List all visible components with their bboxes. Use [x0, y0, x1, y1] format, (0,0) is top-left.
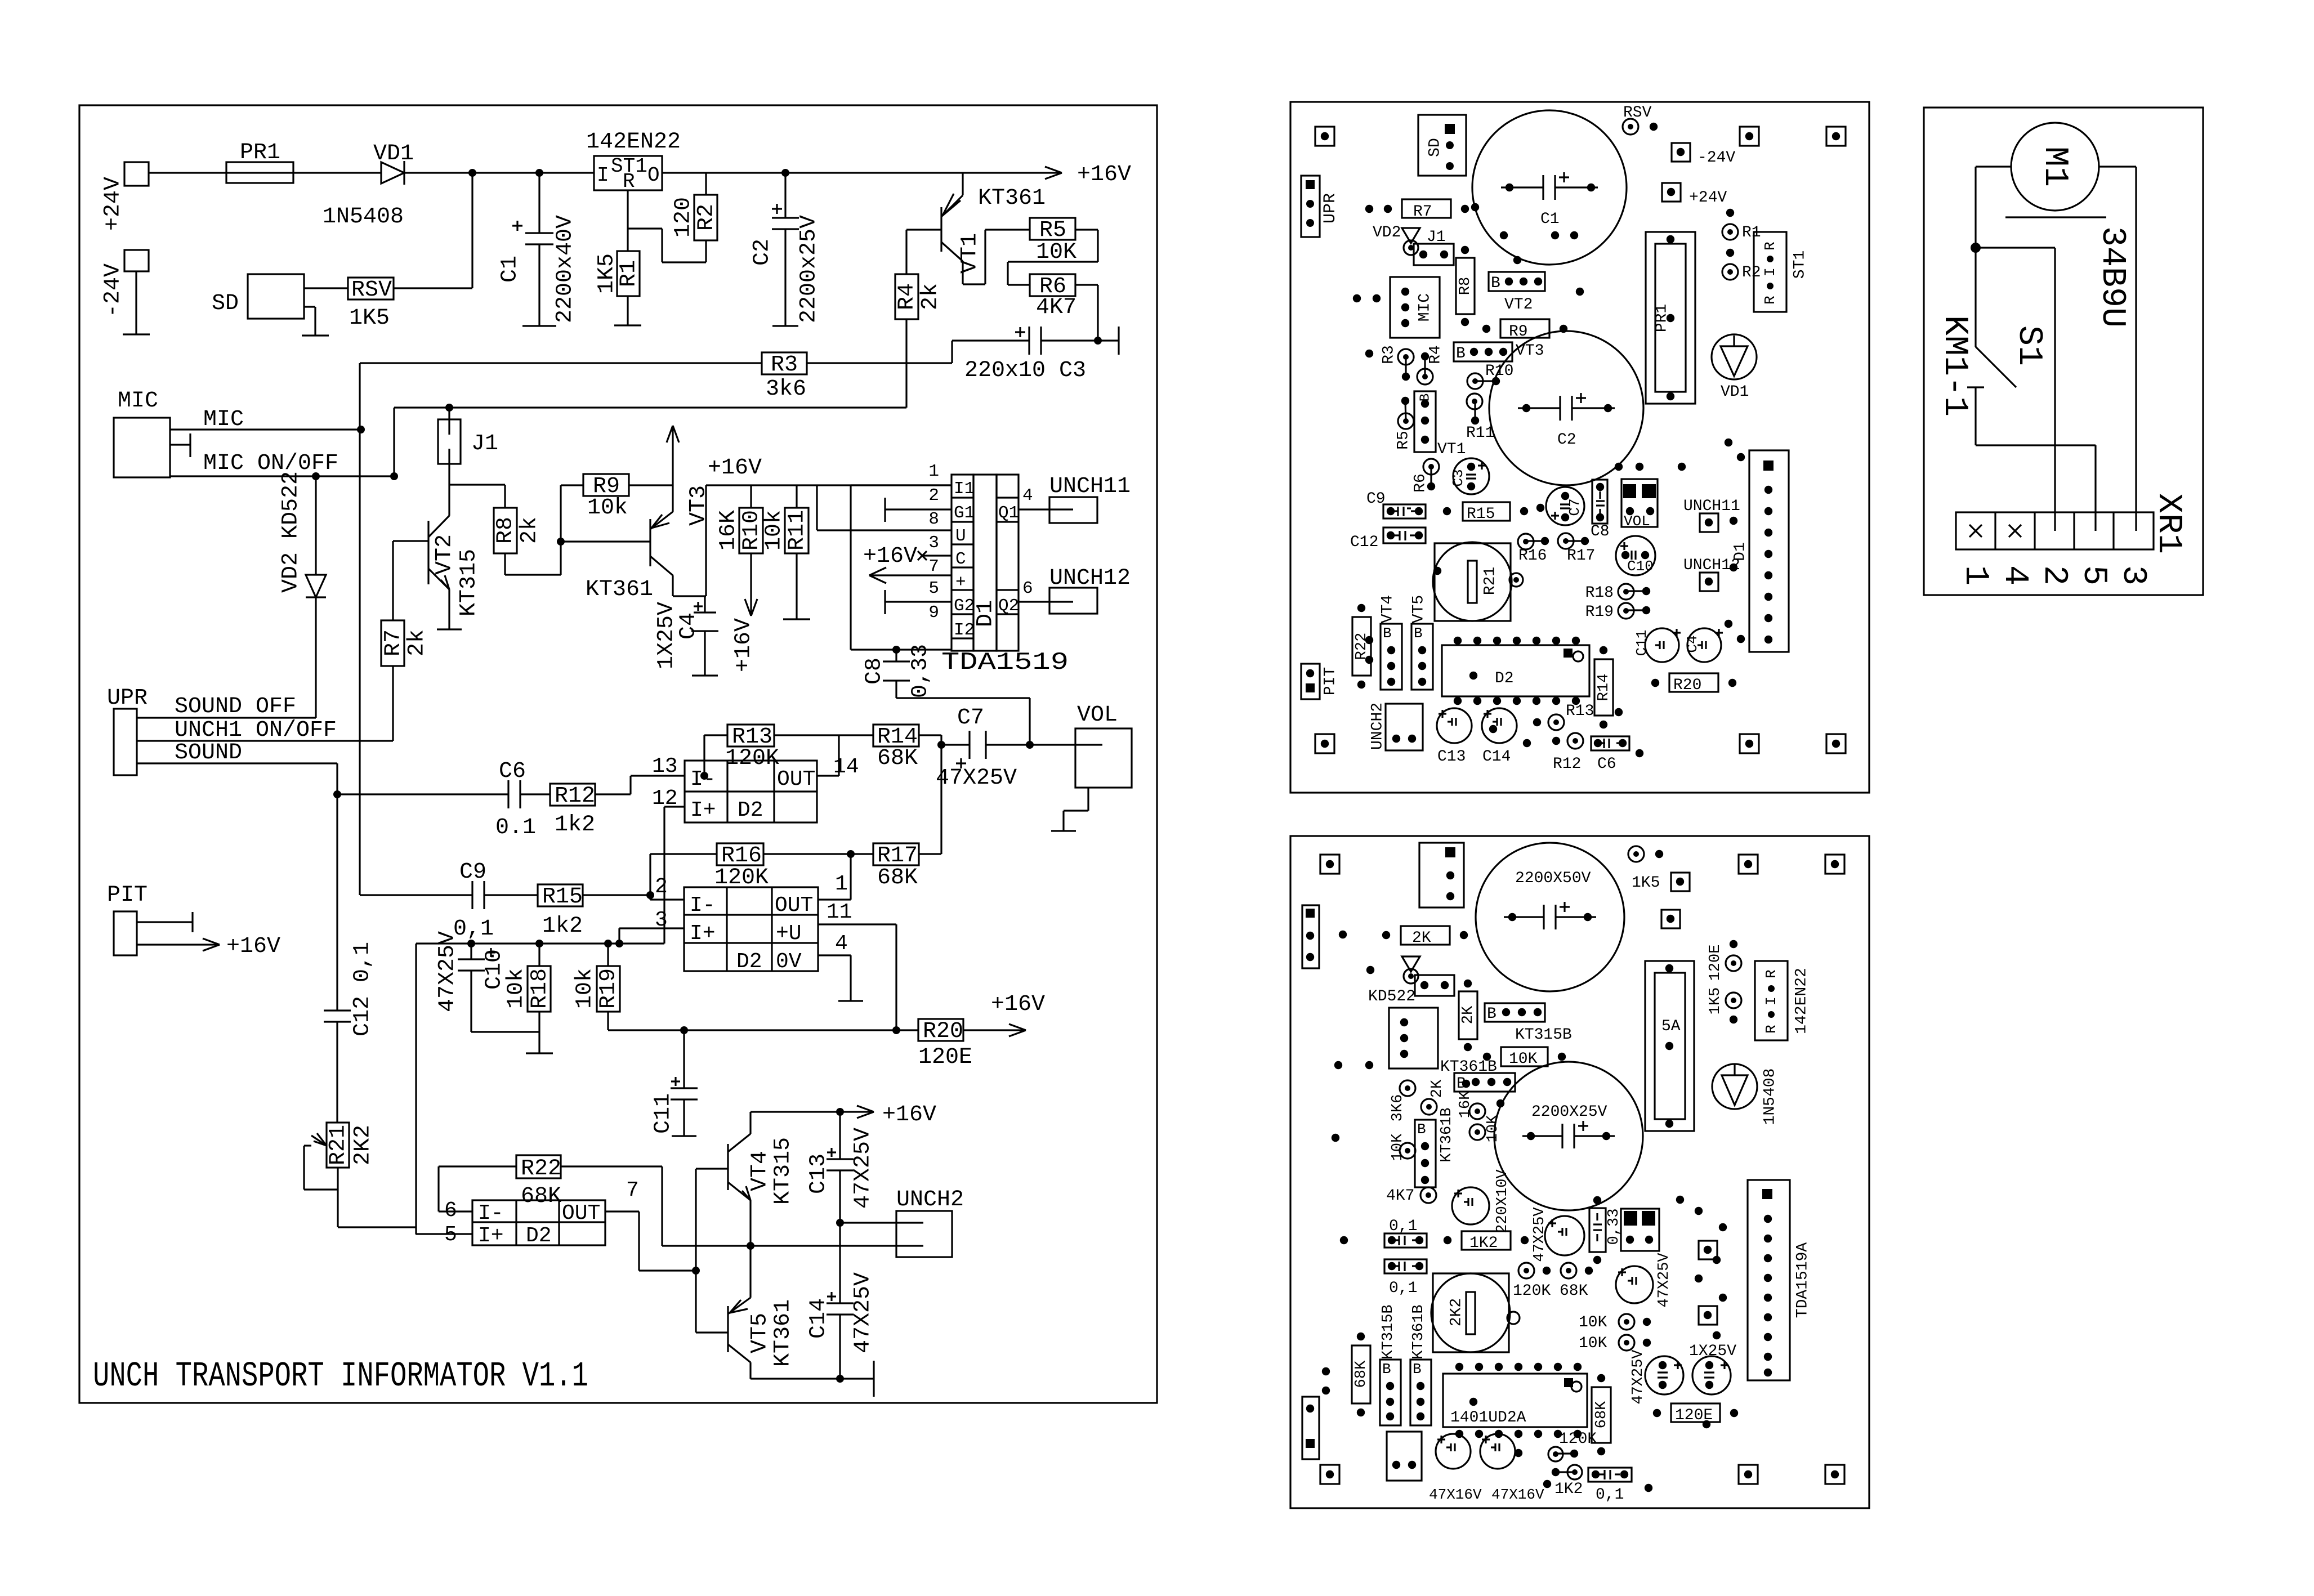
svg-text:R7: R7 [1413, 203, 1432, 221]
wire PIT pin2 +16V [137, 934, 280, 959]
svg-text:2K: 2K [1412, 929, 1431, 947]
resistor R10 16K [716, 485, 765, 553]
PCB1 resistor R13 [1533, 703, 1594, 730]
svg-text:R15: R15 [1467, 506, 1495, 523]
svg-text:UPR: UPR [107, 686, 148, 711]
pin3 C +16V [863, 544, 951, 569]
svg-text:KT315: KT315 [457, 549, 482, 616]
PCB1 capacitor C12 footprint [1350, 527, 1426, 551]
svg-text:3k6: 3k6 [766, 377, 806, 402]
wire RSV to node [394, 287, 472, 289]
PCB2 capacitor 0,1 bottom [1588, 1468, 1632, 1504]
svg-text:+16V: +16V [991, 992, 1045, 1017]
node RSV riser [468, 169, 476, 288]
jumper J1 [438, 408, 498, 516]
wire node to pin2 [1976, 248, 2055, 512]
svg-text:PR1: PR1 [240, 140, 280, 166]
svg-text:8: 8 [928, 509, 939, 529]
svg-text:10K: 10K [1509, 1050, 1538, 1068]
svg-text:SOUND OFF: SOUND OFF [175, 694, 296, 719]
resistor R16 120K [650, 843, 873, 891]
wire MIC ON/OFF [170, 451, 394, 480]
arrow +16V down from R10 [731, 553, 757, 672]
PCB1 fuse PR1 [1646, 232, 1695, 404]
wire MIC shield [170, 433, 190, 457]
svg-text:2K2: 2K2 [1448, 1298, 1465, 1326]
svg-text:120: 120 [671, 197, 696, 238]
svg-text:68K: 68K [877, 865, 918, 891]
svg-text:R: R [623, 170, 635, 193]
motor terminal line 34B9U [2005, 217, 2131, 328]
title text [93, 1356, 588, 1396]
svg-text:VT2: VT2 [432, 534, 458, 575]
svg-text:J1: J1 [1427, 229, 1446, 246]
PCB2 pads 1K5 120E [1707, 940, 1741, 1023]
PCB2 potentiometer 2K2 [1431, 1273, 1520, 1352]
svg-text:R3: R3 [1380, 345, 1397, 364]
svg-text:KT315B: KT315B [1380, 1304, 1397, 1359]
connector UNCH2 [896, 1187, 964, 1257]
svg-text:R8: R8 [1457, 277, 1474, 295]
wire pin2 [646, 854, 684, 900]
svg-text:0,1: 0,1 [1389, 1280, 1417, 1297]
svg-text:R9: R9 [1509, 323, 1528, 341]
svg-text:1K2: 1K2 [1469, 1235, 1498, 1252]
svg-text:1: 1 [928, 462, 939, 481]
wire VT3 collector to rail [705, 485, 706, 613]
svg-text:R7: R7 [381, 629, 406, 656]
svg-text:10K: 10K [1485, 1115, 1502, 1142]
svg-text:OUT: OUT [775, 893, 813, 918]
PCB1 transistor VT1 footprint [1414, 391, 1466, 458]
svg-text:C2: C2 [750, 239, 775, 266]
svg-text:J1: J1 [471, 431, 498, 457]
svg-text:120K: 120K [1513, 1282, 1551, 1300]
PCB2 transistor KT361B vertical second [1410, 1304, 1431, 1425]
svg-text:I+: I+ [478, 1224, 504, 1248]
PCB1 capacitor C1 [1472, 110, 1627, 265]
capacitor C6 0.1 [333, 759, 550, 841]
svg-text:4: 4 [835, 932, 848, 956]
svg-text:3: 3 [655, 908, 668, 932]
wire M1 right [2099, 167, 2136, 512]
schematic frame [79, 105, 1157, 1403]
IC D1 TDA1519 [928, 462, 1069, 677]
capacitor C11 47X25V [651, 1030, 698, 1136]
svg-text:I+: I+ [690, 798, 716, 822]
svg-text:R11: R11 [785, 510, 810, 551]
svg-text:I: I [1763, 996, 1780, 1005]
PCB1 resistor R5 [1395, 397, 1414, 450]
svg-text:O: O [647, 164, 660, 187]
PCB2 connector UPR [1302, 905, 1319, 968]
resistor R22 68K [439, 1155, 662, 1246]
connector UPR [107, 686, 148, 775]
svg-text:C11: C11 [651, 1093, 676, 1134]
wire fuse to VD1 [293, 172, 381, 173]
resistor R11 10k [762, 485, 810, 619]
svg-text:D1: D1 [1731, 542, 1749, 561]
svg-text:RSV: RSV [1623, 104, 1652, 122]
PCB1 capacitor C10 [1616, 536, 1655, 575]
svg-text:PIT: PIT [107, 883, 148, 908]
PCB1 potentiometer R21 [1433, 542, 1523, 621]
connector UNCH12 [1018, 566, 1131, 614]
svg-text:R21: R21 [1481, 567, 1499, 595]
PCB2 resistor 120E [1653, 1403, 1738, 1424]
svg-text:68K: 68K [877, 746, 918, 771]
svg-text:10K: 10K [1579, 1314, 1607, 1331]
PCB2 transistor KT361B vertical [1415, 1107, 1455, 1187]
svg-text:+16V: +16V [226, 934, 280, 959]
PCB2 capacitor 47X25V first [1531, 1207, 1584, 1262]
svg-text:C14: C14 [1482, 748, 1511, 766]
svg-text:120K: 120K [725, 746, 779, 771]
PCB2 trimmer VOL [1621, 1209, 1659, 1251]
svg-text:R: R [1762, 296, 1779, 305]
PCB2 transistor KT361B [1440, 1058, 1515, 1093]
svg-text:2K: 2K [1460, 1005, 1477, 1024]
svg-text:16K: 16K [716, 510, 741, 551]
PCB1 RSV pads [1623, 104, 1658, 135]
svg-text:142EN22: 142EN22 [586, 129, 681, 155]
PCB1 resistor R17 [1558, 533, 1595, 565]
svg-text:MIC: MIC [118, 388, 158, 414]
capacitor C13 47X25V [806, 1112, 876, 1223]
svg-text:D2: D2 [736, 950, 762, 974]
switch S1 KM1-1 [1935, 248, 2048, 445]
resistor R6 4K7 [1030, 274, 1076, 320]
PCB1 diode VD1 [1712, 334, 1757, 401]
svg-text:R: R [1762, 242, 1779, 251]
XR1 pin numbers [1956, 565, 2152, 585]
svg-text:R2: R2 [694, 204, 720, 231]
pin2 G1 stub [885, 498, 951, 522]
PCB2 mounting pads [1320, 855, 1844, 1484]
svg-text:I-: I- [690, 893, 716, 918]
svg-text:R6: R6 [1411, 473, 1429, 493]
svg-text:2200X25V: 2200X25V [1531, 1103, 1607, 1121]
connector SD [212, 274, 304, 319]
rail R10 R11 tops [706, 484, 951, 486]
PCB2 IC 1401UD2A [1443, 1363, 1587, 1438]
svg-text:S1: S1 [2009, 325, 2048, 366]
svg-text:VT3: VT3 [1516, 342, 1544, 360]
PCB1 resistor R4 [1417, 345, 1444, 385]
PCB2 connector UNCH2 [1387, 1432, 1422, 1481]
PCB1 resistor R1 [1722, 209, 1761, 242]
power arrow +16V VT3 [667, 426, 762, 512]
svg-text:+16V: +16V [882, 1102, 936, 1128]
svg-text:VD1: VD1 [1721, 383, 1749, 401]
wire SD to RSV [304, 287, 348, 289]
pin5 G2 stub [885, 590, 951, 614]
svg-text:MIC ON/0FF: MIC ON/0FF [203, 451, 338, 476]
svg-text:0,33: 0,33 [908, 644, 933, 698]
PCB2 stray pins [1322, 931, 1727, 1492]
svg-text:10K: 10K [1390, 1133, 1406, 1161]
PCB2 jumper [1415, 975, 1454, 996]
svg-text:XR1: XR1 [2149, 493, 2187, 554]
svg-text:C12 0,1: C12 0,1 [350, 942, 376, 1036]
PCB1 trimmer VOL [1621, 479, 1658, 530]
svg-text:UPR: UPR [1321, 193, 1340, 223]
regulator ST1 142EN22 [586, 129, 681, 193]
svg-text:C3: C3 [1450, 469, 1467, 486]
svg-text:B: B [1382, 1361, 1391, 1378]
svg-text:KT361B: KT361B [1410, 1304, 1427, 1359]
PCB1 resistor R2 [1722, 249, 1761, 281]
svg-text:C8: C8 [1591, 523, 1610, 540]
PCB2 capacitor 1X25V [1689, 1343, 1736, 1394]
transistor VT5 KT361 [728, 1246, 796, 1379]
PCB1 resistor R19 [1585, 603, 1651, 621]
svg-text:68K: 68K [1560, 1282, 1588, 1300]
svg-text:SOUND: SOUND [175, 740, 242, 766]
svg-text:120E: 120E [1707, 945, 1724, 981]
svg-text:VD2: VD2 [1373, 224, 1401, 242]
wire pin11 +U [818, 900, 896, 1030]
svg-text:UNCH2: UNCH2 [1369, 703, 1386, 750]
svg-text:C9: C9 [459, 860, 486, 885]
svg-text:0V: 0V [776, 950, 802, 974]
svg-text:120E: 120E [918, 1045, 972, 1070]
PCB1 capacitor C3 [1450, 458, 1489, 494]
svg-text:68K: 68K [1353, 1360, 1370, 1388]
svg-text:C1: C1 [498, 256, 523, 283]
svg-text:4: 4 [1022, 486, 1033, 506]
resistor R20 120E [918, 992, 1045, 1070]
PCB1 resistor R18 [1585, 584, 1651, 602]
PCB1 mounting pads [1315, 127, 1846, 753]
PCB1 jumper J1 [1414, 229, 1454, 265]
capacitor C14 47X25V [806, 1223, 876, 1383]
PCB2 connector SD [1419, 843, 1464, 907]
svg-text:R11: R11 [1466, 424, 1494, 442]
wire VD1 to ST1 [404, 172, 594, 173]
svg-text:UNCH11: UNCH11 [1049, 474, 1131, 499]
PCB1 regulator ST1 [1754, 232, 1808, 312]
wire base VT5 [696, 1331, 728, 1333]
resistor R8 2k [493, 485, 561, 575]
svg-text:VT5: VT5 [1410, 595, 1427, 623]
svg-text:C12: C12 [1350, 534, 1378, 551]
svg-text:UNCH TRANSPORT INFORMATOR V1.1: UNCH TRANSPORT INFORMATOR V1.1 [93, 1356, 588, 1396]
svg-text:TDA1519A: TDA1519A [1794, 1242, 1811, 1318]
svg-text:R22: R22 [521, 1156, 561, 1182]
wire UNCH1 ON/OFF [137, 718, 393, 743]
svg-text:R15: R15 [542, 884, 583, 910]
PCB2 capacitor 0,1 first [1384, 1218, 1427, 1248]
transistor VT2 KT315 [393, 516, 482, 629]
PCB2 square pads right [1661, 873, 1690, 928]
svg-text:7: 7 [928, 557, 939, 576]
svg-text:C8: C8 [862, 658, 887, 685]
PCB1 resistor R3 [1380, 345, 1414, 381]
PCB2 resistor 10K right second [1579, 1335, 1651, 1352]
svg-text:G2: G2 [954, 596, 975, 616]
capacitor C1 2200x40V [498, 215, 578, 326]
svg-text:B: B [1413, 1361, 1422, 1378]
svg-text:KT361B: KT361B [1439, 1107, 1455, 1162]
PCB2 resistor 68K vertical left [1352, 1333, 1370, 1416]
wire input bracket pins 1 9 [851, 485, 951, 654]
PCB2 transistor KT315B vertical [1380, 1304, 1401, 1425]
svg-text:220x10 C3: 220x10 C3 [964, 358, 1086, 383]
svg-text:2k: 2k [918, 283, 944, 310]
svg-text:VOL: VOL [1077, 703, 1118, 728]
svg-text:1N5408: 1N5408 [323, 204, 404, 230]
svg-text:C10: C10 [1627, 558, 1654, 575]
transistor VT4 KT315 [728, 1112, 796, 1246]
svg-text:2k: 2k [405, 629, 430, 656]
svg-text:R3: R3 [771, 352, 798, 378]
PCB1 capacitor C8 footprint [1591, 480, 1610, 540]
svg-text:R19: R19 [596, 968, 622, 1009]
PCB2 resistor 120K pad bottom [1548, 1430, 1597, 1461]
svg-text:1: 1 [1956, 565, 1994, 585]
capacitor C10 47X25V [435, 931, 539, 1032]
svg-text:0.1: 0.1 [495, 815, 536, 841]
svg-text:2200x25V: 2200x25V [797, 215, 822, 323]
PCB1 capacitor C9 footprint [1366, 490, 1426, 518]
resistor R19 10k [573, 944, 622, 1030]
connector VOL [1075, 703, 1132, 788]
wire SOUND OFF [137, 694, 316, 719]
svg-text:VT4: VT4 [1379, 595, 1396, 623]
resistor R2 120 [671, 173, 720, 240]
svg-text:UNCH11: UNCH11 [1683, 498, 1740, 515]
PCB1 resistor R7 [1384, 199, 1469, 221]
connector UNCH11 [1018, 474, 1131, 523]
PCB2 transistor KT315B [1485, 1003, 1572, 1044]
svg-text:4K7: 4K7 [1386, 1187, 1414, 1205]
resistor R17 68K [873, 745, 941, 891]
svg-text:M1: M1 [2035, 146, 2074, 187]
svg-text:R20: R20 [1673, 677, 1701, 694]
PCB2 regulator 142EN22 [1755, 961, 1810, 1040]
bus vertical from R3 [359, 363, 360, 895]
PCB1 resistor R22 [1352, 604, 1371, 689]
svg-text:R: R [1763, 1025, 1780, 1034]
PCB1 connector UNCH2 [1369, 703, 1423, 750]
node C1 riser [535, 169, 543, 233]
svg-text:R14: R14 [1596, 674, 1612, 701]
svg-text:C9: C9 [1366, 490, 1386, 508]
wire R5 to R6 loop [1008, 230, 1098, 285]
svg-text:1: 1 [835, 872, 848, 896]
svg-text:B: B [1383, 625, 1392, 642]
PCB2 resistor 68K pad [1560, 1263, 1593, 1300]
svg-text:I+: I+ [690, 922, 716, 946]
svg-text:KD522: KD522 [1368, 988, 1415, 1005]
svg-text:3K6: 3K6 [1390, 1094, 1406, 1122]
capacitor C2 2200x25V [750, 169, 822, 326]
svg-text:10k: 10k [587, 495, 628, 521]
svg-text:R2: R2 [1742, 264, 1761, 281]
PCB2 capacitor 47X25V third [1630, 1349, 1683, 1405]
svg-text:6: 6 [1022, 579, 1033, 598]
svg-text:UNCH12: UNCH12 [1049, 566, 1131, 591]
resistor R18 10k [504, 944, 553, 1053]
PCB1 capacitor C13 [1437, 708, 1472, 766]
terminal -24V [101, 250, 149, 318]
svg-text:2200x40V: 2200x40V [553, 215, 578, 323]
svg-text:1X25V: 1X25V [654, 602, 680, 669]
wire +24V to fuse [149, 172, 226, 173]
svg-text:Q2: Q2 [998, 596, 1019, 616]
svg-text:2200X50V: 2200X50V [1515, 870, 1591, 887]
svg-text:220X10V: 220X10V [1494, 1169, 1511, 1233]
svg-text:R18: R18 [1585, 584, 1614, 602]
svg-text:47X25V: 47X25V [851, 1272, 876, 1353]
PCB2 resistor 10K right first [1579, 1314, 1651, 1331]
wire VT5 collector ground [751, 1361, 874, 1397]
wire mid to UNCH2 [662, 1242, 896, 1250]
PCB2 capacitor 0,1 second [1384, 1259, 1427, 1297]
svg-text:KT361: KT361 [978, 186, 1046, 211]
PCB2 resistor 68K vertical right [1592, 1374, 1611, 1455]
wire VT2 collector node [449, 484, 505, 485]
fuse PR1 [226, 140, 293, 183]
svg-text:R: R [1763, 969, 1780, 978]
svg-text:R8: R8 [493, 517, 519, 544]
PCB2 resistor 1K2 pad [1552, 1465, 1583, 1498]
svg-text:R21: R21 [326, 1125, 351, 1165]
wire R8 node to VT3 base [557, 485, 650, 575]
PCB1 pad +24V [1662, 183, 1727, 207]
svg-text:R4: R4 [895, 283, 920, 310]
svg-text:ST1: ST1 [1791, 251, 1808, 279]
resistor R12 1k2 [550, 784, 631, 838]
svg-text:C6: C6 [1597, 755, 1616, 773]
svg-text:C4: C4 [1684, 635, 1701, 652]
motor M1 [2011, 123, 2099, 211]
PCB2 resistor 120K pad [1513, 1263, 1551, 1300]
svg-text:C13: C13 [806, 1154, 832, 1194]
resistor R1 1K5 [595, 251, 642, 325]
PCB2 resistor 10K pad left [1390, 1133, 1415, 1161]
svg-text:2K2: 2K2 [351, 1125, 376, 1165]
svg-text:2: 2 [928, 486, 939, 506]
opamp D2a [652, 754, 859, 822]
svg-text:UNCH2: UNCH2 [896, 1187, 964, 1213]
svg-text:OUT: OUT [562, 1201, 600, 1226]
svg-text:KT361: KT361 [586, 577, 653, 602]
svg-text:3: 3 [2114, 565, 2152, 585]
svg-text:KT315: KT315 [771, 1137, 796, 1205]
wire PIT pin1 [137, 912, 193, 932]
svg-text:VT4: VT4 [748, 1151, 773, 1191]
PCB2 resistor 10K [1483, 1047, 1566, 1068]
svg-text:PR1: PR1 [1653, 304, 1670, 332]
wire R6 to ground node [1075, 285, 1102, 345]
PCB2 board outline [1290, 836, 1869, 1508]
PCB1 connector PIT [1301, 664, 1339, 699]
PCB1 capacitor C2 [1489, 331, 1643, 485]
svg-text:KM1-1: KM1-1 [1935, 315, 1973, 417]
svg-text:C11: C11 [1633, 630, 1650, 656]
svg-text:R13: R13 [1566, 703, 1594, 720]
svg-text:C: C [955, 549, 966, 569]
opamp D2c [444, 1178, 639, 1248]
svg-text:R17: R17 [1567, 547, 1595, 565]
svg-text:R4: R4 [1427, 345, 1444, 364]
svg-text:R12: R12 [555, 784, 595, 809]
svg-text:1k2: 1k2 [542, 914, 583, 939]
svg-text:RSV: RSV [351, 278, 392, 303]
svg-text:B: B [1417, 1121, 1426, 1138]
